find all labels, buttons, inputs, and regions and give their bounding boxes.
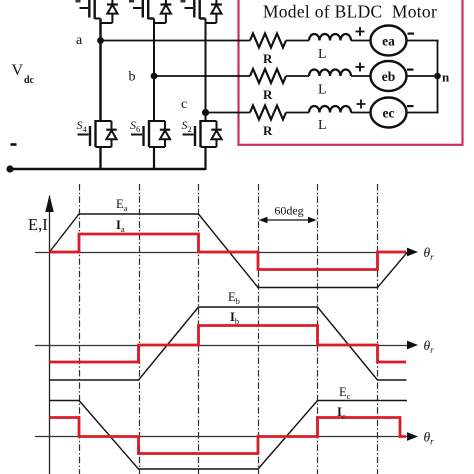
svg-text:V: V xyxy=(12,62,24,79)
diode D6 (antiparallel, S6) xyxy=(160,121,170,147)
wire phase a xyxy=(101,40,251,42)
grid line 60deg #3 xyxy=(198,184,200,474)
wire phase b xyxy=(154,75,250,77)
wire phase b to inductor xyxy=(286,75,309,77)
back-EMF Ea waveform (black trapezoid, phase a) xyxy=(50,214,408,288)
wire inductor to source ea xyxy=(351,40,371,42)
back-EMF source eb xyxy=(371,61,407,91)
svg-text:60deg: 60deg xyxy=(274,204,303,218)
minus sign (eb) xyxy=(407,69,414,71)
vertical axis (E,I axis) xyxy=(49,196,51,474)
red boundary box of motor model xyxy=(239,0,463,145)
inductor L (phase a) xyxy=(309,34,351,40)
svg-text:a: a xyxy=(76,33,83,48)
resistor R (phase b) xyxy=(250,69,286,83)
vertical axis arrowhead xyxy=(45,195,53,213)
node c junction dot xyxy=(202,109,209,116)
svg-text:R: R xyxy=(263,123,273,138)
minus sign (ea) xyxy=(408,33,415,35)
neutral bus vertical wire xyxy=(437,41,439,113)
transistor S2 (bottom MOSFET leg c) xyxy=(183,120,217,147)
bottom DC bus rail xyxy=(10,168,206,171)
wire leg a to bottom rail xyxy=(99,147,101,170)
grid line 60deg #2 xyxy=(139,184,141,474)
svg-text:L: L xyxy=(318,118,327,133)
current Ia waveform (red, phase a) xyxy=(50,234,407,270)
resistor R (phase c) xyxy=(250,106,286,120)
svg-text:b: b xyxy=(129,70,136,85)
wire phase c xyxy=(206,112,251,114)
minus sign (ec) xyxy=(407,105,414,107)
wire leg b to bottom rail xyxy=(153,147,155,170)
svg-text:L: L xyxy=(318,47,327,62)
svg-text:c: c xyxy=(181,97,187,112)
transistor S4 (bottom MOSFET leg a) xyxy=(78,120,112,147)
svg-text:n: n xyxy=(442,70,450,85)
diode D3 (antiparallel, top leg b) xyxy=(154,0,171,23)
diode D5 (antiparallel, top leg c) xyxy=(206,0,222,23)
wire inductor to source ec xyxy=(351,112,371,114)
theta axis arrowhead plot c xyxy=(407,432,418,441)
grid line 60deg #1 xyxy=(79,184,81,474)
grid line 60deg #6 xyxy=(377,184,379,474)
wire leg c to bottom rail xyxy=(204,147,206,170)
plus sign (ec) xyxy=(357,100,366,109)
back-EMF source ec xyxy=(371,98,407,128)
theta axis arrowhead plot b xyxy=(407,341,418,350)
wire eb to neutral node n xyxy=(407,75,438,77)
label fragment above S5 xyxy=(181,0,186,3)
wire leg c vertical xyxy=(205,19,207,122)
back-EMF Ec waveform (black trapezoid, phase c) xyxy=(50,401,408,470)
label fragment above S3 xyxy=(129,0,134,3)
svg-text:R: R xyxy=(263,51,273,66)
wire leg a vertical xyxy=(99,19,102,122)
inductor L (phase c) xyxy=(309,106,351,112)
wire phase c to inductor xyxy=(286,112,309,114)
node a junction dot xyxy=(97,37,104,44)
label fragment above S1 xyxy=(76,0,81,3)
svg-text:ec: ec xyxy=(383,106,395,121)
svg-text:dc: dc xyxy=(24,75,35,86)
node n junction dot xyxy=(434,73,441,80)
transistor S3 (top MOSFET leg b, cut off at top) xyxy=(133,0,154,19)
current Ic waveform (red, phase c) xyxy=(50,418,407,454)
theta axis plot c xyxy=(35,436,408,438)
back-EMF source ea xyxy=(371,26,407,56)
svg-text:R: R xyxy=(263,87,273,102)
resistor R (phase a) xyxy=(250,34,286,48)
negative terminal label - xyxy=(11,143,17,146)
grid line 60deg #4 xyxy=(258,184,260,474)
plus sign (eb) xyxy=(356,63,365,72)
transistor S1 (top MOSFET leg a, cut off at top) xyxy=(80,0,101,19)
60deg double-headed arrow xyxy=(261,219,314,221)
theta axis plot b xyxy=(35,345,408,347)
svg-text:ea: ea xyxy=(382,34,395,49)
back-EMF Eb waveform (black trapezoid, phase b) xyxy=(50,307,407,380)
svg-text:E,I: E,I xyxy=(28,215,48,234)
theta axis arrowhead plot a xyxy=(407,248,418,257)
inductor L (phase b) xyxy=(309,70,351,76)
diode D4 (antiparallel, S4) xyxy=(106,121,116,147)
svg-text:L: L xyxy=(318,83,327,98)
diode D1 (antiparallel, top leg a) xyxy=(101,0,118,23)
node b junction dot xyxy=(151,73,158,80)
plus sign (ea) xyxy=(356,27,365,36)
wire ec to neutral bus xyxy=(407,112,439,114)
transistor S5 (top MOSFET leg c, cut off at top) xyxy=(185,0,206,19)
svg-text:Model of BLDC Motor: Model of BLDC Motor xyxy=(263,2,437,22)
wire leg b vertical xyxy=(153,19,155,122)
theta axis plot a xyxy=(35,252,408,254)
transistor S6 (bottom MOSFET leg b) xyxy=(131,120,165,147)
svg-text:eb: eb xyxy=(382,69,396,84)
terminal dot on negative rail xyxy=(6,165,13,172)
grid line 60deg #5 xyxy=(317,184,319,474)
wire phase a to inductor xyxy=(286,40,309,42)
wire inductor to source eb xyxy=(351,75,371,77)
current Ib waveform (red, phase b) xyxy=(50,326,407,363)
diode D2 (antiparallel, S2) xyxy=(211,121,221,147)
wire ea to neutral bus xyxy=(407,40,439,42)
